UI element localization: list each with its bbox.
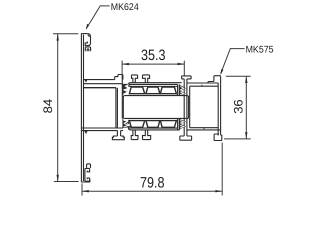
sash bottom band trapezoid 2 [146,121,160,128]
sash bottom surface inner line [129,127,178,129]
frame sash interlock zigzag bottom white channel [123,120,128,127]
right tube bottom outer line [187,129,221,131]
sash right interlock chevron A [180,85,187,91]
sash bottom band trapezoid 3 [160,121,176,128]
right tube bottom tick [203,128,205,130]
frame MK624 bottom hook upper [87,164,91,168]
sash top band top line [128,85,177,87]
frame sash interlock zigzag top [122,84,129,95]
sash top left end cap [128,83,130,87]
right tube glazing lip [208,82,214,84]
dim 79.8 ext line left [81,183,83,195]
sash top band trapezoid 2 [146,87,160,94]
right tube bottom foot hook [214,134,222,141]
sash top band trapezoid 1 [129,87,144,94]
sash right interlock chevron D [180,124,187,129]
frame MK624 gasket notch upper [85,80,87,82]
right tube top tick [201,84,203,86]
frame MK624 right face upper [121,79,123,118]
arrow leader MK624 [86,24,89,30]
sash bottom left end cap [128,126,130,130]
sash chamber top line [124,95,187,97]
sash chamber right wall [188,96,189,119]
frame MK624 hanging T stem [117,131,120,136]
sash chamber left wall [123,96,124,119]
sash right bottom foot [180,136,192,140]
frame MK624 gasket notch lower [85,131,87,133]
dim 84 ext line top [53,33,78,35]
dim 36 ext line bottom [224,138,251,140]
sash right interlock chevron C [180,119,187,124]
sash right interlock white channels top [180,86,184,94]
sash right stem outer [183,79,185,136]
frame MK624 bottom cap [81,179,89,182]
frame MK624 box top line [84,87,116,89]
dim 35.3 ext line left [121,61,123,80]
svg-text:MK624: MK624 [111,2,140,13]
frame MK624 left wall outer [80,33,82,182]
sash T4 cap [132,75,138,83]
leader MK624 [86,6,109,29]
arrow 79.8 right [215,190,222,192]
frame MK624 top hook lower clip notch [87,49,89,51]
dim 36 ext line top [226,75,251,77]
frame MK624 lower arm top line [81,127,123,129]
arrow 36 top [245,76,247,83]
frame sash interlock zigzag bottom [122,119,129,128]
svg-text:36: 36 [231,99,245,114]
frame MK624 top cap [81,33,87,35]
dim 79.8 ext line right [221,143,223,196]
arrow 35.3 left [122,63,129,65]
right tube top outer line [187,82,218,84]
right tube right wall outer [220,77,222,136]
svg-text:84: 84 [41,99,55,114]
sash chamber bottom line [124,117,187,119]
svg-text:35.3: 35.3 [141,47,166,64]
sash right top T cap [182,76,192,79]
frame MK624 upper arm bottom line [84,83,122,85]
right tube top hook cap [214,76,221,82]
frame MK624 bottom hook C [85,168,90,181]
arrow 84 top [57,34,59,41]
arrow 36 bottom [245,132,247,139]
frame MK624 top hook lower clip [85,47,90,51]
sash hanging T7 [143,130,151,140]
arrow leader MK575 [220,69,223,75]
sash top band trapezoid 3 [160,87,176,94]
sash top surface outer line [131,82,182,84]
sash right stem inner [186,79,188,136]
sash bottom surface outer line [131,129,180,131]
sash right interlock walls bottom [178,118,180,129]
sash T5 cap [143,75,150,83]
frame MK624 hanging T foot [112,136,124,140]
right tube top inner line [190,85,219,87]
frame MK624 lower arm bottom line [81,130,123,132]
svg-text:MK575: MK575 [246,44,274,55]
dim 84 ext line bottom [54,181,79,183]
arrow 35.3 right [178,63,185,65]
frame MK624 left wall inner [83,35,85,181]
right tube left wall inner [189,86,191,128]
sash right interlock walls top [178,84,180,95]
dim 79.8 line [82,190,222,192]
dim 36 line [245,76,247,139]
frame sash interlock zigzag top white channel [123,85,128,95]
svg-text:79.8: 79.8 [140,175,165,192]
frame MK624 top hook G [85,34,90,46]
right tube bottom inner line [190,127,219,129]
right tube right wall inner [217,83,219,135]
arrow 84 bottom [57,175,59,182]
sash bottom band trapezoid 1 [129,121,144,128]
frame MK624 upper arm top line [84,79,115,81]
frame MK624 box right wall [116,88,118,128]
sash right interlock chevron B [180,91,187,96]
frame MK624 upper arm T cap [115,75,123,80]
dim 35.3 ext line right [183,61,185,76]
sash right interlock white channels bottom [180,121,184,128]
sash top surface inner line [129,83,178,85]
leader MK575 [221,49,245,74]
sash hanging T6 [131,130,138,140]
dim 35.3 line [122,63,184,65]
dim 84 line [57,34,59,182]
arrow 79.8 left [82,190,89,192]
